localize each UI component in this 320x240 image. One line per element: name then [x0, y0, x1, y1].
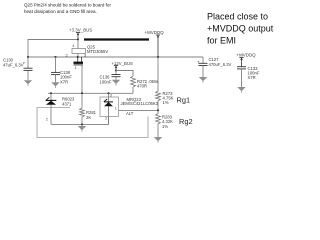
big annotation text: [207, 12, 274, 46]
power +3.3V_BUS arrow: [76, 33, 80, 40]
wire to Q25 pin4: [77, 40, 79, 49]
transistor Q25 tab box: [72, 49, 86, 54]
resistor R273: [156, 57, 161, 110]
svg-text:+MVDDQ output: +MVDDQ output: [207, 24, 274, 34]
svg-text:2: 2: [105, 117, 107, 121]
wire +12V to R272: [116, 71, 133, 77]
main horizontal rail: [28, 56, 203, 58]
wire box to channel: [77, 54, 79, 58]
capacitor C136: [112, 71, 121, 80]
wire 3.3V rail to left: [28, 40, 78, 58]
svg-text:1%: 1%: [162, 124, 168, 129]
svg-text:X7R: X7R: [248, 75, 256, 80]
svg-text:heat dissipation and a GND fil: heat dissipation and a GND fill area.: [24, 9, 97, 14]
svg-text:47uF_6.3V: 47uF_6.3V: [3, 63, 24, 68]
node +12V junction: [115, 69, 117, 71]
svg-text:X7R: X7R: [60, 79, 68, 84]
capacitor C138: [51, 57, 60, 82]
gate rail wire: [48, 92, 133, 94]
svg-text:Placed close to: Placed close to: [207, 12, 268, 22]
svg-text:2: 2: [46, 118, 48, 122]
node C138 tap: [54, 56, 56, 58]
svg-text:+MVDDQ: +MVDDQ: [145, 30, 165, 35]
power +MVDDQ arrow top: [156, 35, 160, 57]
svg-text:3: 3: [110, 94, 112, 98]
power +MVDDQ arrow right: [239, 58, 243, 67]
svg-text:1: 1: [75, 66, 77, 70]
box alt group: [37, 108, 148, 138]
thick bus wire: [84, 38, 149, 40]
ground R283: [154, 137, 162, 143]
node zener top: [50, 92, 52, 94]
zener D2: [104, 93, 113, 124]
svg-text:2K: 2K: [86, 115, 91, 120]
svg-text:4: 4: [72, 44, 74, 48]
svg-text:470uF_6.3V: 470uF_6.3V: [209, 62, 232, 67]
svg-text:+: +: [23, 61, 26, 66]
node junction at 3.3V: [77, 38, 79, 40]
svg-text:2: 2: [66, 53, 68, 57]
svg-text:for EMI: for EMI: [207, 36, 236, 46]
transistor Q2 box: [100, 97, 119, 117]
ground C130: [24, 80, 32, 86]
svg-text:+MVDDQ: +MVDDQ: [237, 52, 257, 57]
resistor R283: [156, 110, 161, 137]
note text about Q25: [24, 2, 111, 14]
svg-text:MTD3055V: MTD3055V: [87, 49, 108, 54]
ground C127: [199, 77, 207, 83]
svg-text:470R: 470R: [137, 84, 147, 89]
svg-text:100nF: 100nF: [100, 79, 112, 84]
node R281 top: [81, 92, 83, 94]
transistor Q25 mosfet symbol: [74, 57, 84, 65]
svg-text:Rg2: Rg2: [179, 117, 193, 126]
wire ALT: [119, 109, 159, 111]
ground C133: [237, 87, 245, 93]
svg-text:4371: 4371: [62, 101, 72, 106]
node C130 tap: [27, 56, 29, 58]
ground C136: [112, 80, 120, 86]
svg-text:Q25 Pin2/4 should be soldered: Q25 Pin2/4 should be soldered to board f…: [24, 2, 111, 7]
svg-text:1%: 1%: [163, 100, 169, 105]
node at Q25 drain: [77, 56, 79, 58]
node Q2 top: [107, 92, 109, 94]
node MVDDQ rail: [157, 56, 159, 58]
ground C138: [51, 82, 59, 88]
svg-text:Rg1: Rg1: [177, 96, 191, 105]
wire Q25 gate down: [81, 65, 83, 93]
svg-text:1: 1: [115, 106, 117, 110]
svg-text:JEM/SC421LC05K3: JEM/SC421LC05K3: [121, 101, 159, 106]
capacitor C133: [237, 67, 246, 87]
capacitor C127: [197, 57, 208, 77]
ground gate network: [78, 124, 86, 131]
capacitor C130: [23, 57, 33, 80]
power +12V_BUS arrow: [114, 66, 118, 71]
svg-text:ALT: ALT: [126, 111, 134, 116]
svg-text:3: 3: [84, 53, 86, 57]
resistor R281: [80, 93, 85, 124]
node ground junction: [81, 123, 83, 125]
zener D1: [46, 93, 57, 124]
resistor R272: [131, 76, 136, 93]
svg-text:+3.3V_BUS: +3.3V_BUS: [69, 27, 92, 32]
bottom wire: [51, 117, 109, 125]
node divider: [157, 109, 159, 111]
